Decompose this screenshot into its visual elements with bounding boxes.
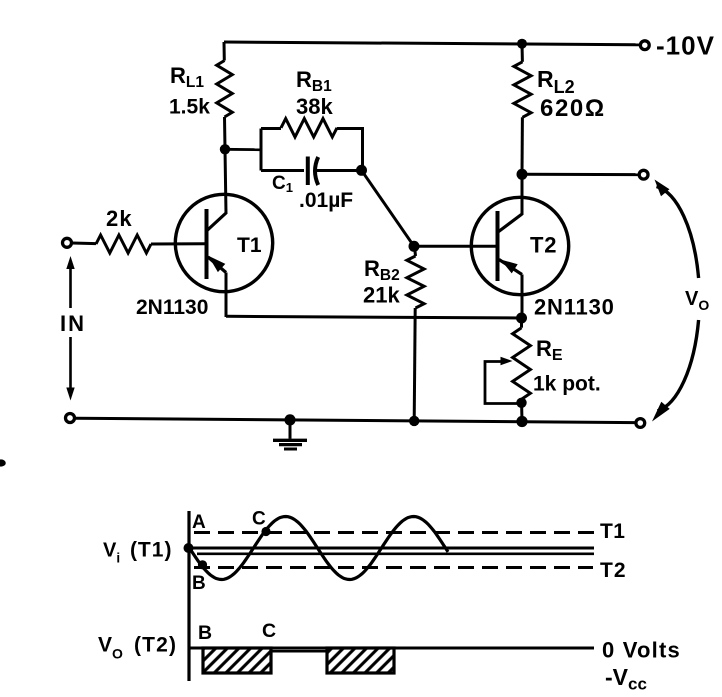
svg-text:C: C (252, 509, 266, 530)
node Vi sine wave (188, 517, 448, 580)
node output pulse hatched 1 (203, 648, 271, 673)
node IN label with arrows (60, 256, 86, 401)
resistor RB2 21k (363, 246, 424, 420)
capacitor C1 .01uF (261, 157, 361, 213)
node RE ground junction (516, 416, 527, 427)
ground (273, 414, 307, 449)
wire node to RB1/C1 (225, 148, 261, 151)
svg-text:2k: 2k (106, 206, 133, 231)
wire pulse step (271, 650, 327, 653)
wire T1 threshold dashed (194, 531, 594, 534)
resistor 2k input (63, 206, 205, 253)
terminal output top (639, 170, 648, 179)
svg-text:T1: T1 (237, 234, 262, 257)
svg-text:2N1130: 2N1130 (534, 295, 615, 320)
svg-text:IN: IN (60, 311, 86, 336)
node T2 base junction (409, 241, 420, 252)
svg-text:-10V: -10V (656, 31, 715, 61)
svg-text:.01µF: .01µF (299, 189, 353, 212)
resistor RL1 1.5k (169, 42, 232, 149)
resistor RL2 620ohm (514, 44, 606, 175)
node RE wiper junction (516, 398, 526, 408)
svg-text:T2: T2 (530, 233, 557, 258)
svg-text:B: B (192, 573, 206, 594)
transistor T2 2N1130 (471, 175, 614, 320)
svg-text:T2: T2 (600, 559, 627, 582)
node RB1/C1 right junction (356, 165, 367, 176)
wire output top (522, 173, 638, 176)
node VO output arc (652, 180, 709, 422)
wire RB1/C1 left branch (260, 129, 263, 171)
terminal bottom-right (636, 419, 645, 428)
node T2 collector junction (517, 169, 528, 180)
wire 0 volts axis (189, 647, 594, 650)
node junction top rail / RL2 (517, 39, 527, 49)
wire bias level double line (189, 547, 594, 550)
resistor RE 1k pot (513, 318, 601, 422)
resistor RB1 38k (261, 67, 363, 171)
wire diagonal to T2 base node (362, 170, 415, 246)
node waveform axis (187, 511, 190, 681)
svg-text:0 Volts: 0 Volts (602, 638, 681, 663)
svg-text:1k pot.: 1k pot. (533, 373, 601, 396)
svg-text:T1: T1 (600, 520, 625, 543)
wire ground rail (76, 418, 636, 422)
wiper arrow RE (485, 357, 518, 404)
transistor T1 2N1130 (136, 149, 273, 319)
wire -10V supply rail (224, 42, 639, 45)
svg-text:38k: 38k (296, 94, 333, 119)
wire edge mark (0, 459, 6, 466)
svg-text:1.5k: 1.5k (169, 96, 210, 119)
wire T2 threshold dashed (194, 566, 593, 569)
node RB2 ground junction (409, 416, 419, 426)
node T1 collector junction (220, 144, 230, 154)
svg-text:620Ω: 620Ω (540, 95, 606, 122)
svg-text:Vi (T1): Vi (T1) (103, 539, 172, 566)
node emitter junction (516, 313, 527, 324)
svg-text:B: B (198, 622, 212, 644)
svg-text:A: A (192, 512, 206, 533)
terminal -10V (640, 31, 715, 61)
svg-text:2N1130: 2N1130 (136, 296, 208, 319)
wire emitters T1-T2 (226, 316, 522, 318)
svg-text:C: C (262, 620, 276, 642)
node output pulse hatched 2 (327, 648, 394, 673)
terminal bottom-left (66, 414, 75, 423)
svg-text:21k: 21k (363, 283, 400, 308)
wire T2 base (414, 245, 496, 248)
